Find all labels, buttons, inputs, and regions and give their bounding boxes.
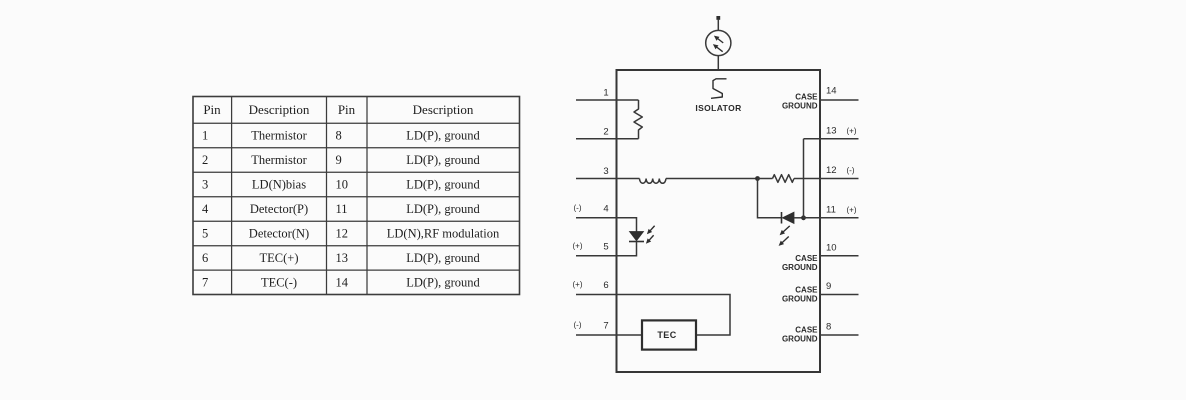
svg-text:7: 7	[202, 275, 208, 289]
isolator symbol	[711, 79, 727, 99]
svg-text:13: 13	[336, 251, 349, 265]
svg-text:(+): (+)	[847, 205, 857, 214]
svg-text:5: 5	[603, 242, 608, 253]
pin 5 number	[603, 242, 608, 253]
svg-text:12: 12	[336, 226, 349, 240]
svg-text:12: 12	[826, 165, 837, 176]
svg-text:CASE: CASE	[795, 326, 818, 335]
svg-text:LD(N)bias: LD(N)bias	[252, 177, 306, 191]
pin 14 wire	[820, 99, 859, 101]
pin description table text	[202, 102, 500, 289]
wire node A to resistor	[758, 178, 773, 180]
svg-text:14: 14	[336, 275, 349, 289]
pin 13 number	[826, 125, 837, 136]
pin 1 wire	[576, 99, 639, 101]
svg-text:(+): (+)	[573, 242, 583, 251]
pin 13 wire	[804, 138, 859, 140]
svg-text:ISOLATOR: ISOLATOR	[695, 103, 741, 113]
svg-text:8: 8	[336, 129, 342, 143]
svg-text:(+): (+)	[847, 126, 857, 135]
svg-text:7: 7	[603, 321, 608, 332]
thermistor	[634, 100, 642, 139]
svg-text:Pin: Pin	[338, 102, 356, 117]
svg-text:2: 2	[603, 126, 608, 137]
svg-text:Detector(P): Detector(P)	[250, 202, 308, 216]
pin 1 number	[603, 88, 608, 99]
pin 12 number	[826, 165, 837, 176]
pin 9 number	[826, 281, 831, 292]
svg-text:TEC: TEC	[657, 330, 676, 340]
pin 7 wire	[576, 334, 642, 336]
pin 11 number	[826, 204, 836, 215]
pin 12 polarity label	[847, 166, 855, 175]
svg-text:TEC(-): TEC(-)	[261, 275, 297, 289]
svg-text:1: 1	[603, 88, 608, 99]
svg-text:14: 14	[826, 86, 837, 97]
pin 6 wire	[576, 295, 730, 336]
svg-text:9: 9	[336, 153, 342, 167]
svg-text:13: 13	[826, 125, 837, 136]
svg-text:LD(P), ground: LD(P), ground	[406, 275, 480, 289]
svg-text:Thermistor: Thermistor	[251, 129, 307, 143]
wire circle to package top	[717, 56, 719, 70]
svg-text:(-): (-)	[847, 166, 855, 175]
pin 4 number	[603, 204, 608, 215]
svg-text:10: 10	[336, 177, 349, 191]
pin 11 wire	[804, 217, 859, 219]
resistor	[773, 175, 795, 183]
pin 10 wire	[820, 255, 859, 257]
svg-text:(+): (+)	[573, 280, 583, 289]
svg-text:LD(N),RF modulation: LD(N),RF modulation	[387, 226, 500, 240]
pin 2 wire	[576, 138, 639, 140]
pin 10 case ground label	[782, 254, 818, 272]
pin 4 wire	[576, 218, 637, 232]
pin 14 case ground label	[782, 93, 818, 111]
pin 3 number	[603, 166, 608, 177]
laser diode	[782, 212, 794, 223]
pin 9 case ground label	[782, 286, 818, 304]
TEC label	[657, 330, 676, 340]
svg-text:GROUND: GROUND	[782, 295, 818, 304]
pin 6 polarity label	[573, 280, 583, 289]
svg-text:CASE: CASE	[795, 254, 818, 263]
pin 2 number	[603, 126, 608, 137]
svg-text:GROUND: GROUND	[782, 335, 818, 344]
wire laser diode to node B	[794, 217, 804, 219]
pin 4 polarity label	[574, 204, 582, 213]
pin 5 polarity label	[573, 242, 583, 251]
pin 14 number	[826, 86, 837, 97]
svg-text:LD(P), ground: LD(P), ground	[406, 251, 480, 265]
svg-text:10: 10	[826, 242, 837, 253]
pin description table grid	[193, 97, 520, 295]
monitor photodiode	[629, 232, 644, 242]
svg-text:LD(P), ground: LD(P), ground	[406, 202, 480, 216]
isolator label	[695, 103, 741, 113]
svg-text:4: 4	[603, 204, 608, 215]
wire inductor to node A	[666, 178, 758, 180]
svg-text:Description: Description	[413, 102, 474, 117]
svg-text:GROUND: GROUND	[782, 102, 818, 111]
node B junction	[801, 215, 806, 220]
svg-text:(-): (-)	[574, 321, 582, 330]
svg-text:6: 6	[603, 280, 608, 291]
monitor photodiode light arrows	[644, 224, 656, 245]
svg-text:8: 8	[826, 322, 831, 333]
pin 12 wire	[794, 178, 859, 180]
svg-text:11: 11	[826, 204, 836, 215]
pin 13 polarity label	[847, 126, 857, 135]
svg-text:CASE: CASE	[795, 93, 818, 102]
wire dot to fiber output circle	[717, 19, 719, 31]
fiber output stem dot	[716, 16, 720, 20]
svg-text:GROUND: GROUND	[782, 263, 818, 272]
pin 5 wire	[576, 242, 637, 256]
pin 10 number	[826, 242, 837, 253]
svg-text:LD(P), ground: LD(P), ground	[406, 153, 480, 167]
svg-text:LD(P), ground: LD(P), ground	[406, 177, 480, 191]
svg-text:4: 4	[202, 202, 209, 216]
svg-text:Pin: Pin	[203, 102, 221, 117]
svg-text:1: 1	[202, 129, 208, 143]
svg-text:LD(P), ground: LD(P), ground	[406, 129, 480, 143]
svg-text:2: 2	[202, 153, 208, 167]
pin 11 polarity label	[847, 205, 857, 214]
inductor	[640, 179, 666, 184]
pin 13 vertical wire to node B	[803, 139, 805, 218]
svg-text:11: 11	[336, 202, 348, 216]
pin 8 wire	[820, 334, 859, 336]
pin 8 case ground label	[782, 326, 818, 344]
svg-text:Description: Description	[249, 102, 310, 117]
pin 8 number	[826, 322, 831, 333]
wire node A down to laser diode	[758, 179, 782, 218]
svg-text:3: 3	[603, 166, 608, 177]
svg-text:6: 6	[202, 251, 208, 265]
node A junction	[755, 176, 760, 181]
package outline	[617, 70, 821, 372]
svg-text:3: 3	[202, 177, 208, 191]
svg-text:5: 5	[202, 226, 208, 240]
pin 6 number	[603, 280, 608, 291]
laser diode cathode bar	[781, 212, 783, 224]
svg-text:TEC(+): TEC(+)	[260, 251, 299, 265]
svg-text:CASE: CASE	[795, 286, 818, 295]
TEC box	[642, 320, 696, 349]
pin 7 polarity label	[574, 321, 582, 330]
fiber output circle	[706, 30, 731, 55]
svg-text:Detector(N): Detector(N)	[249, 226, 309, 240]
pin 3 wire	[576, 178, 640, 180]
svg-text:Thermistor: Thermistor	[251, 153, 307, 167]
pin 9 wire	[820, 294, 859, 296]
svg-text:9: 9	[826, 281, 831, 292]
laser light arrows	[777, 224, 791, 248]
pin 7 number	[603, 321, 608, 332]
svg-text:(-): (-)	[574, 204, 582, 213]
